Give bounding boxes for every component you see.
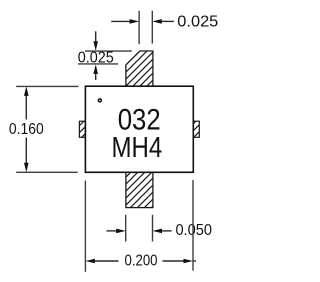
dim 0.050: right extension line xyxy=(152,215,154,242)
dim 0.025 left: upper leader arrow xyxy=(95,31,97,42)
top terminal outline xyxy=(126,51,153,86)
dim 0.160: top extension line xyxy=(16,85,78,87)
package body outline xyxy=(85,86,193,172)
left side tab outline xyxy=(79,121,85,137)
dim 0.200: right dimension segment with out arrow xyxy=(163,260,185,262)
dim 0.025 left: lower extension line xyxy=(78,63,118,65)
svg-text:0.160: 0.160 xyxy=(9,121,44,138)
dim 0.025 top: right leader arrow xyxy=(161,20,174,22)
dim 0.200: right extension line xyxy=(192,180,194,271)
svg-text:MH4: MH4 xyxy=(112,132,163,164)
right side tab outline xyxy=(193,121,199,137)
dim 0.200: left extension line xyxy=(84,181,86,272)
dim 0.200: left dimension segment with out arrow xyxy=(94,260,119,262)
left side tab hatch xyxy=(55,0,219,150)
dim 0.200: overshoot stub xyxy=(193,260,196,262)
dim 0.025 top: left leader arrow xyxy=(111,20,130,22)
dim 0.025 top: right extension line xyxy=(151,11,153,44)
svg-text:0.025: 0.025 xyxy=(78,49,114,66)
dim 0.160: dimension line upper segment with up arrow xyxy=(25,95,27,120)
dim 0.050: left extension line xyxy=(125,215,127,242)
dim 0.050: right leader arrow xyxy=(161,230,171,232)
dim 0.050: left leader arrow xyxy=(107,230,118,232)
pin 1 marker circle xyxy=(98,99,101,102)
dim 0.025 top: left extension line xyxy=(138,11,140,44)
top terminal hatch xyxy=(48,0,233,150)
dim 0.025 left: lower leader arrow xyxy=(95,73,97,80)
dim 0.160: dimension line lower segment with down arrow xyxy=(25,138,27,165)
dim 0.160: bottom extension line xyxy=(16,171,77,173)
svg-text:0.025: 0.025 xyxy=(177,13,218,30)
svg-text:0.200: 0.200 xyxy=(125,253,158,270)
dim 0.025 left: upper extension line xyxy=(85,50,132,52)
bottom terminal outline xyxy=(126,172,153,207)
svg-text:0.050: 0.050 xyxy=(175,222,212,239)
